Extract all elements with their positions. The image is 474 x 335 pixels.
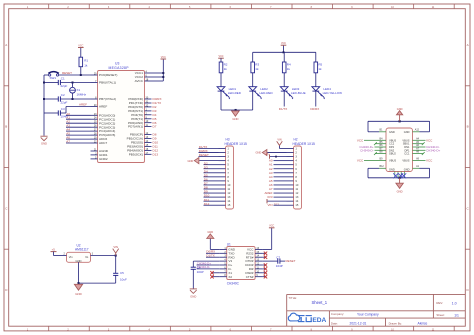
- crystal X1: [70, 87, 76, 93]
- power flag VCC above U1: [269, 227, 275, 229]
- svg-text:GND: GND: [397, 190, 403, 194]
- no-connect U1 DSR#: [262, 272, 265, 274]
- svg-text:VIN: VIN: [277, 138, 281, 142]
- wire R4 top: [283, 52, 285, 62]
- svg-text:VCC: VCC: [357, 138, 364, 142]
- svg-text:104P: 104P: [61, 115, 68, 119]
- junction H2 pin3: [275, 156, 277, 158]
- wire C7 to RESET: [280, 260, 285, 262]
- wire H2 pin10: [274, 184, 287, 186]
- no-connect U1 CTS#: [262, 276, 265, 278]
- wire LED4 cathode: [315, 91, 317, 106]
- svg-text:1k: 1k: [84, 64, 88, 68]
- svg-text:1k: 1k: [318, 67, 322, 71]
- pushbutton SW1: [48, 72, 59, 76]
- wire H3 pin7: [204, 172, 219, 174]
- wire H3 pin2: [199, 152, 219, 154]
- svg-text:+5: +5: [52, 247, 56, 251]
- svg-text:Sheet_1: Sheet_1: [312, 300, 328, 305]
- wire R1 bottom to RESET net: [80, 67, 82, 75]
- U3 digital net labels D0-D13: [153, 97, 162, 156]
- no-connect U1 RTS#: [262, 256, 265, 258]
- svg-text:R2: R2: [224, 62, 228, 66]
- svg-text:R1: R1: [84, 59, 88, 63]
- svg-text:A: A: [467, 43, 469, 47]
- IC U3 MEGA328P body: [98, 71, 145, 163]
- svg-text:GND: GND: [404, 167, 410, 171]
- ground GND at H3 pin 4: [194, 158, 199, 164]
- resistor R1: [79, 57, 83, 66]
- wire U1 RXD: [206, 256, 220, 258]
- svg-text:D1/TX: D1/TX: [206, 254, 215, 258]
- no-connect at B8: [374, 152, 379, 155]
- pin A7 stub: [413, 149, 420, 151]
- svg-text:PB5(SCK): PB5(SCK): [129, 152, 143, 156]
- wire output node to C5: [115, 256, 117, 274]
- wire U1 TXD: [206, 252, 220, 254]
- svg-text:Sheet:: Sheet:: [436, 313, 445, 317]
- svg-text:16MHz: 16MHz: [77, 92, 87, 96]
- svg-text:GND: GND: [188, 159, 194, 163]
- ground GND at H2 pin 2: [262, 149, 267, 155]
- svg-text:C7: C7: [276, 255, 280, 259]
- svg-text:GND: GND: [232, 117, 238, 121]
- junction crystal bottom: [72, 98, 74, 100]
- svg-text:1.0: 1.0: [452, 301, 457, 305]
- wire R1 top to VCC: [80, 48, 82, 58]
- wire U1 D-: [197, 268, 220, 270]
- wire R4 to LED3: [283, 73, 285, 87]
- power flag VCC at LED rail: [281, 44, 287, 46]
- wire H2 pin12: [274, 192, 287, 194]
- wire H3 pin11: [204, 188, 219, 190]
- svg-text:VCC: VCC: [78, 44, 83, 47]
- wire H2 pin9: [274, 180, 287, 182]
- svg-text:RESET: RESET: [62, 71, 72, 75]
- svg-text:GND: GND: [256, 151, 262, 155]
- junction U2 GND: [77, 282, 79, 284]
- power flag +5 at H2 pin3: [269, 154, 271, 158]
- capacitor C1: [57, 80, 59, 85]
- svg-text:D12: D12: [204, 202, 210, 206]
- wire H2 pin8: [274, 176, 287, 178]
- junction USB top: [399, 120, 401, 122]
- frame row ticks: [4, 86, 470, 249]
- wire H3 pin5: [204, 164, 219, 166]
- power flag VCC at R2: [218, 57, 224, 59]
- svg-text:VCC: VCC: [357, 159, 364, 163]
- wire U1 DTR# to C7: [262, 260, 278, 262]
- left ground bus vertical: [43, 75, 45, 136]
- svg-text:VCC: VCC: [281, 42, 286, 45]
- wire U1 V3 to C4: [193, 261, 219, 267]
- svg-text:X2: X2: [228, 275, 232, 279]
- wire VCC rail for R3 R4 R5: [253, 45, 316, 52]
- svg-text:AVCC: AVCC: [135, 79, 144, 83]
- H2 pins with numbers: [287, 147, 299, 208]
- svg-text:1k: 1k: [287, 67, 291, 71]
- svg-text:RESET: RESET: [199, 153, 209, 157]
- svg-text:LED-RED: LED-RED: [260, 91, 274, 95]
- no-connect U1 R232: [262, 252, 265, 254]
- svg-text:VCC: VCC: [218, 55, 223, 58]
- svg-text:1k: 1k: [255, 67, 259, 71]
- wire C1 to XTAL1: [60, 82, 90, 84]
- ground GND below U2: [74, 284, 82, 290]
- LED LED1 LED-RED: [217, 87, 230, 100]
- svg-text:D13: D13: [153, 152, 159, 156]
- wire U1 VCC up: [262, 228, 272, 250]
- capacitor C2: [57, 96, 59, 101]
- svg-text:Date:: Date:: [331, 321, 338, 325]
- wire H2 pin6: [274, 168, 287, 170]
- svg-text:PB7(XTAL2): PB7(XTAL2): [99, 97, 116, 101]
- wire USB A9: [420, 160, 426, 162]
- svg-text:GND: GND: [76, 259, 82, 263]
- wire crystal top stub: [72, 83, 74, 88]
- capacitor C7: [277, 259, 279, 264]
- svg-text:CC1: CC1: [404, 152, 410, 156]
- svg-text:GND: GND: [207, 230, 213, 234]
- wire USB B6: [375, 146, 380, 148]
- wire C4 to GND: [192, 269, 194, 288]
- LED LED2 LED-RED: [249, 87, 262, 100]
- wire USB B7: [375, 149, 380, 151]
- svg-text:Drawn By:: Drawn By:: [389, 321, 403, 325]
- pin A12 stub: [413, 131, 420, 133]
- wire bus to C1: [44, 82, 58, 84]
- svg-text:104P: 104P: [276, 264, 283, 268]
- pin A5 stub: [413, 143, 420, 145]
- wire H2 pin3 to +5 flag: [270, 156, 287, 158]
- svg-text:D7: D7: [153, 125, 157, 129]
- resistor R3: [251, 62, 255, 73]
- wire U1 D+: [197, 264, 220, 266]
- svg-text:CH340-D-: CH340-D-: [360, 148, 374, 152]
- IC U1 CH340C body: [227, 247, 255, 280]
- wire VCC1/VCC2/AVCC to VCC rail: [152, 59, 164, 81]
- IC U2 AMS1117 body: [67, 252, 91, 262]
- svg-text:R3: R3: [255, 62, 259, 66]
- svg-text:GND2: GND2: [99, 157, 108, 161]
- svg-text:C1: C1: [61, 77, 65, 81]
- no-connect at B5: [374, 142, 379, 145]
- wire crystal bottom stub: [72, 93, 74, 99]
- wire H2 pin15: [274, 204, 287, 206]
- svg-text:D13: D13: [274, 202, 279, 206]
- junction LED1 LED2 cathode tee: [235, 109, 237, 111]
- svg-text:R4: R4: [287, 62, 291, 66]
- wire C3 to AREF step: [60, 107, 90, 114]
- wire USB bottom GND wrap: [368, 168, 430, 178]
- wire R2 to LED1: [220, 73, 222, 87]
- svg-text:GND: GND: [404, 130, 410, 134]
- wire H3 pin1: [199, 148, 219, 150]
- wire H3 pin4 to GND: [200, 160, 219, 162]
- no-connect at A8: [420, 152, 425, 155]
- svg-text:B12: B12: [380, 165, 385, 168]
- no-connect U1 X2: [212, 276, 220, 278]
- no-connect marks on USB shield pins: [393, 173, 406, 178]
- junction bus-C1: [43, 82, 45, 84]
- USB shield pin stubs: [395, 172, 405, 178]
- no-connect U1 RI#: [262, 268, 265, 270]
- wire H3 pin12: [204, 192, 219, 194]
- svg-text:GND: GND: [190, 294, 196, 298]
- svg-text:GND: GND: [75, 292, 81, 296]
- svg-text:TITLE:: TITLE:: [289, 296, 298, 300]
- wire USB B9: [364, 160, 379, 162]
- svg-text:Company:: Company:: [331, 312, 344, 316]
- svg-text:22pF: 22pF: [61, 84, 68, 88]
- svg-text:SW1: SW1: [50, 76, 57, 80]
- svg-text:C2: C2: [61, 93, 65, 97]
- pin A8 stub: [413, 153, 420, 155]
- svg-text:GND: GND: [41, 142, 47, 146]
- wire H3 pin3: [199, 156, 219, 158]
- svg-text:HEADER 1X15: HEADER 1X15: [293, 142, 316, 146]
- resistor R5: [314, 62, 318, 73]
- svg-text:AREF: AREF: [99, 105, 107, 109]
- pin B6 stub: [379, 146, 386, 148]
- resistor R4: [282, 62, 286, 73]
- resistor R2: [219, 62, 223, 73]
- ground GND below bus: [40, 136, 47, 141]
- svg-text:C3: C3: [61, 107, 65, 111]
- connector H3 body: [226, 146, 234, 209]
- junction U2 output: [115, 254, 117, 256]
- wire H3 pin8: [204, 176, 219, 178]
- ground GND below C4: [190, 289, 197, 294]
- net port +5: [51, 251, 57, 253]
- pin B9 stub: [379, 160, 386, 162]
- no-connect at A5: [420, 142, 425, 145]
- svg-text:VIN: VIN: [267, 203, 272, 207]
- wire U2 Vo to output node: [91, 255, 116, 257]
- wire RESET to U3 pin 29: [59, 74, 91, 76]
- ground GND at USB shield: [396, 178, 403, 189]
- junction USB bottom: [399, 177, 401, 179]
- wire R5 to LED4: [315, 73, 317, 87]
- svg-text:A: A: [5, 43, 7, 47]
- svg-text:RESET: RESET: [286, 259, 296, 263]
- svg-text:VBUS: VBUS: [402, 138, 409, 142]
- junction LED rail R4: [283, 51, 285, 53]
- svg-text:PC6(RESET): PC6(RESET): [99, 73, 117, 77]
- svg-text:U1: U1: [227, 242, 231, 246]
- wire USB A4: [420, 139, 426, 141]
- connector H2 body: [294, 146, 302, 209]
- svg-text:VIN: VIN: [113, 245, 118, 249]
- pin B8 stub: [379, 153, 386, 155]
- svg-text:VBUS: VBUS: [402, 159, 409, 163]
- svg-text:B: B: [5, 125, 7, 129]
- wire R3 to LED2: [252, 73, 254, 87]
- svg-text:D0/RX: D0/RX: [310, 107, 319, 111]
- wire H2 pin1 to power flag: [280, 145, 287, 148]
- svg-text:LED-YELLOW: LED-YELLOW: [323, 91, 343, 95]
- svg-text:VBUS: VBUS: [389, 138, 396, 142]
- svg-text:GND: GND: [389, 130, 395, 134]
- capacitor C3: [57, 110, 59, 115]
- svg-text:CH340C: CH340C: [227, 281, 240, 285]
- wire C2 to XTAL2: [60, 98, 90, 100]
- svg-text:VCC: VCC: [269, 225, 274, 228]
- svg-text:2021-12-31: 2021-12-31: [350, 321, 367, 325]
- wire U2 GND down: [78, 262, 80, 283]
- connector USB1 type-C body: [386, 128, 413, 172]
- wire H3 pin15: [204, 204, 219, 206]
- title block frame: [287, 294, 466, 326]
- power flag D13 at H2 pin14: [266, 199, 268, 203]
- svg-text:1/1: 1/1: [454, 313, 459, 317]
- wire H3 pin14: [204, 200, 219, 202]
- svg-text:R5: R5: [318, 62, 322, 66]
- power flag VIN at H2 pin1: [277, 141, 283, 145]
- wire LED1 LED2 cathodes to GND: [221, 91, 253, 110]
- svg-text:VCC: VCC: [426, 159, 433, 163]
- wire H2 pin13: [274, 196, 287, 198]
- svg-text:HEADER 1X15: HEADER 1X15: [225, 142, 248, 146]
- wire R2 top: [220, 58, 222, 62]
- wire USB A6: [420, 146, 426, 148]
- U3 left pins with numbers: [91, 73, 118, 162]
- svg-text:Vo: Vo: [85, 255, 89, 259]
- svg-text:ADC7: ADC7: [99, 141, 108, 145]
- LED LED4 LED-YELLOW: [312, 87, 325, 100]
- wire H2 pin7: [274, 172, 287, 174]
- wire H3 pin13: [204, 196, 219, 198]
- ground GND above U1: [207, 234, 214, 239]
- capacitor C5: [113, 272, 118, 274]
- svg-text:EDA: EDA: [312, 317, 326, 324]
- svg-text:SBU2: SBU2: [389, 152, 396, 156]
- capacitor C4: [191, 266, 196, 268]
- svg-text:CH340-D+: CH340-D+: [426, 148, 441, 152]
- power flag VCC at R1: [78, 47, 84, 49]
- pin A9 stub: [413, 160, 420, 162]
- svg-text:GND: GND: [389, 167, 395, 171]
- wire USB top GND wrap: [368, 121, 430, 132]
- power flag VCC at U3: [161, 58, 167, 60]
- svg-text:GND: GND: [397, 107, 403, 111]
- H3 pins with numbers: [219, 147, 231, 208]
- no-connect U1 X1: [212, 272, 220, 274]
- svg-text:A7: A7: [66, 140, 70, 144]
- svg-text:AMS1117: AMS1117: [75, 247, 89, 251]
- junction VCC1: [162, 72, 164, 74]
- USB1 internal pin names: [389, 130, 410, 172]
- svg-text:PD7(AIN1): PD7(AIN1): [128, 125, 143, 129]
- svg-text:CTS#: CTS#: [246, 275, 254, 279]
- junction VCC2: [162, 76, 164, 78]
- wire bus to C2: [44, 98, 58, 100]
- svg-text:VCC: VCC: [161, 56, 166, 59]
- svg-text:B: B: [467, 125, 469, 129]
- svg-text:1k: 1k: [224, 67, 228, 71]
- LED LED3 LED-BLUE: [280, 87, 293, 100]
- pin B7 stub: [379, 149, 386, 151]
- wire H2 pin2 to GND: [268, 152, 287, 154]
- pin B12 stub: [379, 167, 386, 169]
- svg-text:VCC: VCC: [426, 138, 433, 142]
- pin B1 stub: [379, 131, 386, 133]
- junction R1-RESET: [80, 74, 82, 76]
- svg-text:A12: A12: [415, 129, 420, 132]
- svg-text:104P: 104P: [197, 270, 204, 274]
- EasyEDA logo: [288, 313, 326, 324]
- frame row letters: [5, 43, 469, 292]
- no-connect U1 DCD#: [262, 264, 265, 266]
- pin A6 stub: [413, 146, 420, 148]
- pin A1 stub: [413, 167, 420, 169]
- wire U1 GND up: [210, 239, 219, 250]
- wire H3 pin6: [204, 168, 219, 170]
- wire bus to C3: [44, 112, 58, 114]
- ground GND arrow at USB top: [397, 111, 403, 122]
- junction bus-C2: [43, 98, 45, 100]
- wire R3 top: [252, 52, 254, 62]
- svg-text:C5: C5: [120, 271, 124, 275]
- pin B5 stub: [379, 143, 386, 145]
- wire USB A7: [420, 149, 426, 151]
- wire H2 pin4: [274, 160, 287, 162]
- svg-text:REV:: REV:: [436, 301, 443, 305]
- svg-text:D1/TX: D1/TX: [279, 107, 288, 111]
- svg-text:Your Company: Your Company: [357, 312, 379, 316]
- pin B4 stub: [379, 139, 386, 141]
- svg-text:CH340-D-: CH340-D-: [197, 265, 211, 269]
- wire H3 pin10: [204, 184, 219, 186]
- svg-text:Aknice: Aknice: [418, 321, 428, 325]
- wire +5 to U2 Vin: [54, 252, 67, 256]
- wire H3 pin9: [204, 180, 219, 182]
- svg-text:Vin: Vin: [69, 255, 73, 259]
- U3 right pins with numbers: [127, 71, 152, 157]
- svg-text:VBUS: VBUS: [389, 159, 396, 163]
- ground GND below LED1 LED2: [232, 111, 240, 116]
- svg-text:LED-RED: LED-RED: [228, 91, 242, 95]
- wire SW1 left to bus: [44, 74, 49, 76]
- svg-text:PB6(XTAL1): PB6(XTAL1): [99, 81, 116, 85]
- wire C5 to GND rail: [79, 275, 116, 283]
- wire H2 pin11: [274, 188, 287, 190]
- U1 pins with numbers: [220, 247, 262, 279]
- svg-text:22pF: 22pF: [61, 101, 68, 105]
- power flag VIN at U2 output: [113, 249, 119, 256]
- wire H2 pin14 to flag: [268, 200, 287, 202]
- svg-text:3V3: 3V3: [267, 195, 273, 199]
- U3 analog input wires with labels A0-A7: [66, 112, 91, 144]
- svg-text:U3: U3: [115, 62, 119, 66]
- pin A4 stub: [413, 139, 420, 141]
- wire H2 pin5: [274, 164, 287, 166]
- junction crystal top: [72, 82, 74, 84]
- svg-text:10uF: 10uF: [120, 278, 127, 282]
- wire LED3 cathode: [283, 91, 285, 106]
- svg-text:MEGA328P: MEGA328P: [109, 66, 130, 70]
- svg-text:LED-BLUE: LED-BLUE: [291, 91, 306, 95]
- svg-text:AREF: AREF: [79, 102, 87, 106]
- wire USB B4: [364, 139, 379, 141]
- wire R5 top: [315, 52, 317, 62]
